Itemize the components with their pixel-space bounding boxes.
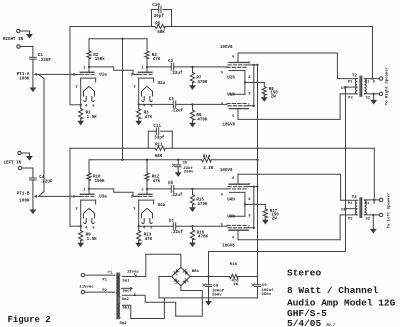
svg-text:C5: C5 <box>183 162 188 166</box>
svg-text:To Right Speaker: To Right Speaker <box>384 66 389 105</box>
svg-text:6: 6 <box>232 115 234 119</box>
svg-text:8: 8 <box>248 198 250 202</box>
svg-text:47K: 47K <box>153 58 161 62</box>
svg-text:470K: 470K <box>197 118 208 122</box>
svg-text:68K: 68K <box>157 31 165 35</box>
svg-text:5: 5 <box>150 226 152 230</box>
svg-text:P2: P2 <box>102 289 107 293</box>
svg-text:R9: R9 <box>86 233 92 237</box>
svg-text:BR1: BR1 <box>192 270 200 274</box>
svg-text:R1: R1 <box>86 111 92 115</box>
svg-text:To Left Speaker: To Left Speaker <box>387 192 392 229</box>
svg-text:LEFT IN: LEFT IN <box>4 162 22 166</box>
svg-text:C10: C10 <box>152 4 160 8</box>
svg-text:R10: R10 <box>93 175 101 179</box>
svg-text:100K: 100K <box>19 78 30 82</box>
svg-text:R12: R12 <box>152 175 160 179</box>
svg-text:68K: 68K <box>155 155 163 159</box>
svg-text:1: 1 <box>83 188 85 192</box>
svg-text:S2: S2 <box>366 217 371 221</box>
svg-text:10GV8: 10GV8 <box>223 123 236 127</box>
svg-text:U2b: U2b <box>227 76 235 81</box>
svg-text:U4a: U4a <box>158 204 166 208</box>
svg-text:5: 5 <box>92 226 94 230</box>
svg-text:470K: 470K <box>197 203 208 207</box>
svg-text:18vac: 18vac <box>127 270 140 274</box>
svg-text:33pf: 33pf <box>154 136 165 141</box>
svg-text:R4: R4 <box>152 54 158 58</box>
svg-text:Sb2: Sb2 <box>120 321 128 326</box>
svg-text:8: 8 <box>248 93 250 97</box>
svg-text:3: 3 <box>75 85 77 89</box>
svg-text:.22uf: .22uf <box>170 71 183 76</box>
svg-text:150k: 150k <box>95 57 106 62</box>
svg-text:Sb1: Sb1 <box>122 306 130 311</box>
svg-text:3: 3 <box>133 207 135 211</box>
svg-text:Sa1: Sa1 <box>122 280 130 284</box>
svg-text:2: 2 <box>73 196 75 200</box>
svg-text:8: 8 <box>248 215 250 219</box>
svg-text:5: 5 <box>92 104 94 108</box>
svg-text:P1: P1 <box>102 279 107 283</box>
svg-text:7: 7 <box>248 104 250 108</box>
svg-text:Sa2: Sa2 <box>122 298 130 302</box>
svg-text:6: 6 <box>232 56 234 60</box>
svg-text:.22UF: .22UF <box>40 180 53 184</box>
svg-text:1.5K: 1.5K <box>87 238 98 242</box>
svg-text:.22UF: .22UF <box>38 59 51 63</box>
svg-text:.22uf: .22uf <box>171 230 184 235</box>
svg-text:.22uf: .22uf <box>170 193 183 198</box>
svg-text:P1: P1 <box>348 202 353 206</box>
svg-text:2W: 2W <box>271 95 277 99</box>
svg-text:U3b: U3b <box>227 214 235 219</box>
svg-text:R2: R2 <box>93 54 99 58</box>
svg-text:C9: C9 <box>262 284 267 288</box>
svg-text:5: 5 <box>150 104 152 108</box>
svg-text:9: 9 <box>221 223 223 227</box>
svg-text:3: 3 <box>133 85 135 89</box>
svg-text:47K: 47K <box>145 116 153 120</box>
svg-text:7: 7 <box>248 184 250 188</box>
svg-text:1W: 1W <box>233 283 238 287</box>
svg-text:R6: R6 <box>196 114 202 118</box>
svg-text:10GV8: 10GV8 <box>222 245 235 249</box>
svg-text:T2: T2 <box>352 74 358 78</box>
svg-text:P1: P1 <box>348 80 353 84</box>
svg-text:U1b: U1b <box>227 92 235 97</box>
svg-text:2.2K: 2.2K <box>203 167 214 171</box>
svg-text:T3: T3 <box>352 196 358 200</box>
svg-text:C4: C4 <box>39 176 45 180</box>
svg-text:Sact: Sact <box>122 290 132 294</box>
svg-text:R14: R14 <box>203 156 211 160</box>
svg-text:9: 9 <box>221 71 223 75</box>
svg-text:U1a: U1a <box>99 73 107 77</box>
svg-text:30pf: 30pf <box>154 14 165 19</box>
svg-text:P2: P2 <box>348 217 353 221</box>
svg-text:1.5K: 1.5K <box>87 116 98 120</box>
svg-text:1: 1 <box>83 66 85 70</box>
svg-text:U4b: U4b <box>227 198 235 203</box>
svg-text:5/4/05: 5/4/05 <box>287 318 322 327</box>
svg-text:47K: 47K <box>145 238 153 242</box>
svg-text:1: 1 <box>141 188 143 192</box>
svg-text:R3: R3 <box>144 111 150 115</box>
svg-text:U2a: U2a <box>158 82 166 86</box>
svg-text:2: 2 <box>131 74 133 78</box>
svg-text:PT1-B: PT1-B <box>17 193 30 197</box>
svg-text:.22uf: .22uf <box>171 108 184 113</box>
svg-text:150K: 150K <box>95 180 106 184</box>
svg-text:8 Watt / Channel: 8 Watt / Channel <box>287 285 379 296</box>
svg-text:R18: R18 <box>230 263 238 267</box>
svg-text:7: 7 <box>248 226 250 230</box>
svg-text:C3: C3 <box>169 98 175 102</box>
svg-text:250v: 250v <box>184 171 194 175</box>
svg-text:250v: 250v <box>212 294 222 298</box>
svg-text:C1: C1 <box>38 54 44 58</box>
svg-text:1: 1 <box>141 66 143 70</box>
svg-text:Stereo: Stereo <box>287 267 322 278</box>
svg-text:470K: 470K <box>197 81 208 85</box>
svg-text:R13: R13 <box>144 233 152 237</box>
svg-text:C8: C8 <box>213 284 218 288</box>
svg-text:6: 6 <box>232 237 234 241</box>
svg-text:U3a: U3a <box>99 195 107 199</box>
svg-text:S1: S1 <box>365 202 370 206</box>
svg-text:Ct: Ct <box>341 87 346 91</box>
svg-text:C11: C11 <box>154 125 162 129</box>
svg-text:9: 9 <box>221 193 223 197</box>
svg-text:470K: 470K <box>198 235 209 239</box>
svg-text:47k: 47k <box>153 179 161 184</box>
svg-text:Audio Amp Model 12G: Audio Amp Model 12G <box>287 297 396 308</box>
svg-text:S1: S1 <box>365 80 370 84</box>
svg-text:8: 8 <box>248 76 250 80</box>
svg-text:115vac: 115vac <box>79 286 94 290</box>
svg-text:R11: R11 <box>155 144 163 148</box>
svg-text:C2: C2 <box>168 60 174 64</box>
svg-text:C7: C7 <box>169 220 175 224</box>
svg-text:Ct: Ct <box>341 209 346 213</box>
svg-text:6: 6 <box>232 177 234 181</box>
svg-text:R15: R15 <box>196 198 204 202</box>
svg-text:9: 9 <box>221 103 223 107</box>
svg-text:7: 7 <box>248 62 250 66</box>
svg-text:2: 2 <box>131 196 133 200</box>
svg-text:R7: R7 <box>196 76 202 80</box>
svg-text:3: 3 <box>75 207 77 211</box>
svg-text:Figure 2: Figure 2 <box>8 315 51 325</box>
svg-text:P2: P2 <box>348 96 353 100</box>
svg-text:10GV8: 10GV8 <box>220 46 233 50</box>
svg-text:S2: S2 <box>366 96 371 100</box>
svg-text:250v: 250v <box>262 293 272 297</box>
svg-text:100K: 100K <box>19 199 30 203</box>
svg-text:2: 2 <box>73 74 75 78</box>
svg-text:2W: 2W <box>272 217 278 221</box>
svg-text:R5: R5 <box>155 23 161 27</box>
svg-text:RIGHT IN: RIGHT IN <box>3 38 24 42</box>
svg-text:PT1-A: PT1-A <box>17 73 30 77</box>
svg-text:10GV8: 10GV8 <box>220 169 233 173</box>
svg-text:T1: T1 <box>108 272 113 276</box>
svg-text:C6: C6 <box>168 182 174 186</box>
